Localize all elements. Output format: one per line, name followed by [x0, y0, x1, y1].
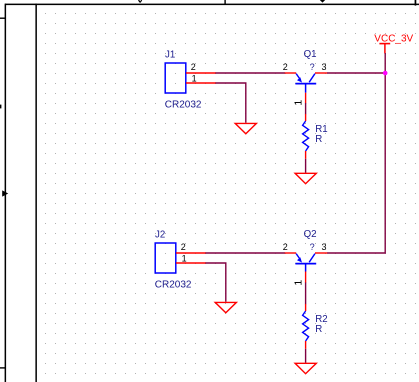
wire Q1 emitter to R1 [305, 103, 307, 114]
svg-text:3: 3 [322, 62, 327, 72]
svg-text:J2: J2 [155, 229, 165, 240]
ground symbol (R2) [295, 363, 316, 373]
pin stub R2 bottom [305, 341, 307, 349]
pin stub Q1 base-left [285, 72, 297, 74]
Q2 collector diagonal [309, 254, 315, 263]
Q2 emitter diagonal with arrow [296, 254, 300, 260]
wire Q1.3 to VCC [327, 72, 385, 74]
ground symbol (R1) [295, 173, 316, 183]
ground symbol (J2) [215, 302, 236, 312]
zone label fragment left edge [0, 105, 1, 109]
svg-text:CR2032: CR2032 [155, 280, 192, 291]
Q2 base bar [295, 263, 316, 265]
pin stub Q1 right [315, 72, 327, 74]
wire R1 to ground [305, 159, 307, 173]
Q1 collector diagonal [309, 74, 315, 83]
pin stub R1 bottom [305, 151, 307, 159]
Q2 emitter lead down [305, 264, 307, 272]
sheet border left line [5, 4, 7, 382]
wire J1.1 to ground [216, 83, 246, 123]
svg-text:Q2: Q2 [304, 229, 317, 240]
svg-text:R: R [315, 134, 322, 145]
svg-text:1: 1 [192, 74, 197, 84]
resistor R1 [303, 114, 309, 159]
marker arrow on left border [2, 190, 8, 196]
svg-text:2: 2 [283, 242, 288, 252]
wire J1.2 to Q1.2 [216, 72, 286, 74]
pin stub Q2 right [315, 252, 327, 254]
pin J2-1 [176, 262, 206, 264]
pin J1-1 [186, 82, 216, 84]
sheet border inner left line [35, 4, 37, 382]
R2 zigzag [303, 311, 309, 341]
zone tick top x225 [224, 0, 225, 5]
svg-text:2: 2 [181, 242, 186, 252]
pin stub Q2 base-left [285, 252, 297, 254]
zone label fragment top [138, 0, 142, 3]
transistor Q1 [285, 73, 328, 103]
connector J2 body [155, 243, 176, 273]
svg-text:?: ? [310, 62, 315, 72]
Q1 emitter diagonal with arrow [296, 74, 300, 80]
cursor marker triangle top [320, 0, 325, 3]
svg-text:1: 1 [182, 254, 187, 264]
svg-text:2: 2 [191, 62, 196, 72]
transistor Q2 [285, 253, 328, 283]
junction dot [383, 71, 388, 76]
svg-text:CR2032: CR2032 [165, 100, 202, 111]
svg-text:Q1: Q1 [304, 49, 317, 60]
power symbol VCC_3V [379, 44, 390, 54]
svg-text:VCC_3V: VCC_3V [374, 33, 413, 44]
svg-text:1: 1 [293, 280, 305, 286]
wire J2.1 to ground [206, 263, 226, 302]
wire VCC vertical and down to Q2.3 [327, 53, 385, 253]
pin stub Q2 bottom [305, 272, 307, 283]
pin stub R2 top [305, 304, 307, 311]
pin J1-2 [186, 72, 216, 74]
Q1 emitter lead down [305, 84, 307, 93]
sheet border stub bottom-left [0, 367, 5, 368]
svg-text:J1: J1 [165, 49, 175, 60]
ground symbol (J1) [235, 123, 256, 133]
sheet border top line [5, 4, 419, 6]
wire R2 to ground [305, 349, 307, 363]
svg-text:R: R [315, 324, 322, 335]
connector J1 body [165, 63, 186, 93]
pin stub R1 top [305, 114, 307, 121]
zone tick top right x415 [415, 0, 417, 6]
svg-text:?: ? [310, 242, 315, 252]
R1 zigzag [303, 121, 309, 151]
sheet border stub top-left [0, 18, 5, 19]
svg-text:2: 2 [283, 62, 288, 72]
Q1 base bar [295, 83, 316, 85]
pin stub Q1 bottom [305, 93, 307, 104]
resistor R2 [303, 304, 309, 349]
pin J2-2 [176, 252, 206, 254]
svg-text:1: 1 [293, 100, 305, 106]
wire Q2 emitter to R2 [305, 283, 307, 305]
wire J2.2 to Q2.2 [206, 252, 286, 254]
svg-text:3: 3 [322, 242, 327, 252]
